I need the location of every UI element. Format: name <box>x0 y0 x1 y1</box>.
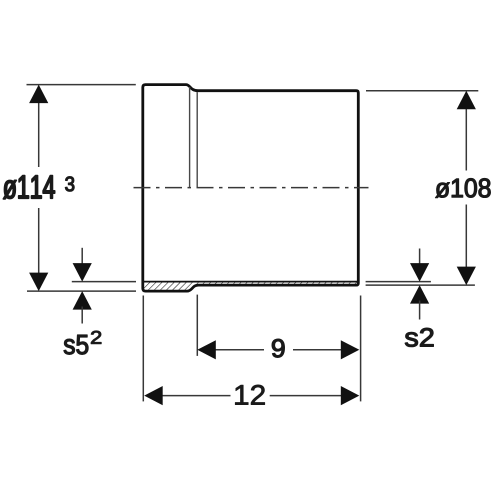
dimension 9 arrow right <box>341 340 360 359</box>
extension line 9 left <box>196 295 198 356</box>
extension line socket bottom (ø114 / s5) <box>27 290 136 292</box>
dimension 12 arrow left <box>144 386 163 405</box>
dimension ø108 arrow down <box>457 267 476 286</box>
label ø108 <box>436 179 491 198</box>
extension line inner surface left (s5) <box>72 281 136 283</box>
label 12 <box>235 385 264 405</box>
dimension s5 lower tail <box>81 307 83 324</box>
label 9 <box>272 339 284 357</box>
centerline (dash-dot axis) <box>134 187 369 189</box>
dimension 12 line right segment <box>270 395 344 397</box>
dimension 12 line left segment <box>159 395 231 397</box>
dimension s5 upper tail <box>81 248 83 266</box>
hatched section band (bottom wall of sleeve) <box>143 282 358 292</box>
body outline (sleeve outer profile) <box>143 85 358 292</box>
extension line 9/12 right <box>360 296 362 402</box>
dimension ø108 line upper segment <box>465 106 467 171</box>
dimension ø114 line lower segment <box>38 208 40 275</box>
dimension s5 arrow down (to inner surface) <box>73 263 92 282</box>
label ø114 with tolerance superscript 3 <box>3 176 54 199</box>
dimension s2 lower tail <box>419 301 421 320</box>
dimension ø114 arrow up <box>29 85 48 104</box>
label s2 <box>405 328 433 347</box>
label superscript 2 of s5 <box>91 331 101 344</box>
label superscript 3 of ø114 <box>65 177 74 192</box>
extension line socket top (ø114) <box>27 84 136 86</box>
dimension s2 arrow up (to outer surface) <box>410 285 429 304</box>
socket transition tangent line 1 <box>189 87 191 188</box>
dimension ø114 arrow down <box>29 273 48 292</box>
dimension ø108 arrow up <box>457 91 476 110</box>
dimension s5 arrow up (to socket bottom) <box>73 291 92 310</box>
label s5 <box>64 335 88 354</box>
extension line 12 left <box>142 296 144 402</box>
dimension 9 arrow left <box>197 340 216 359</box>
dimension 12 arrow right <box>341 386 360 405</box>
dimension ø108 line lower segment <box>465 205 467 270</box>
inner bottom surface line <box>144 281 358 283</box>
extension line main bottom right (ø108 / s2) <box>366 284 475 286</box>
dimension s2 arrow down (to inner surface) <box>410 263 429 282</box>
dimension s2 upper tail <box>419 249 421 267</box>
dimension 9 line right segment <box>293 349 344 351</box>
socket transition tangent line 2 <box>196 92 198 188</box>
extension line inner surface right (s2) <box>366 281 431 283</box>
extension line main top right (ø108) <box>366 90 478 92</box>
dimension 9 line left segment <box>212 349 264 351</box>
dimension ø114 line upper segment <box>38 100 40 167</box>
